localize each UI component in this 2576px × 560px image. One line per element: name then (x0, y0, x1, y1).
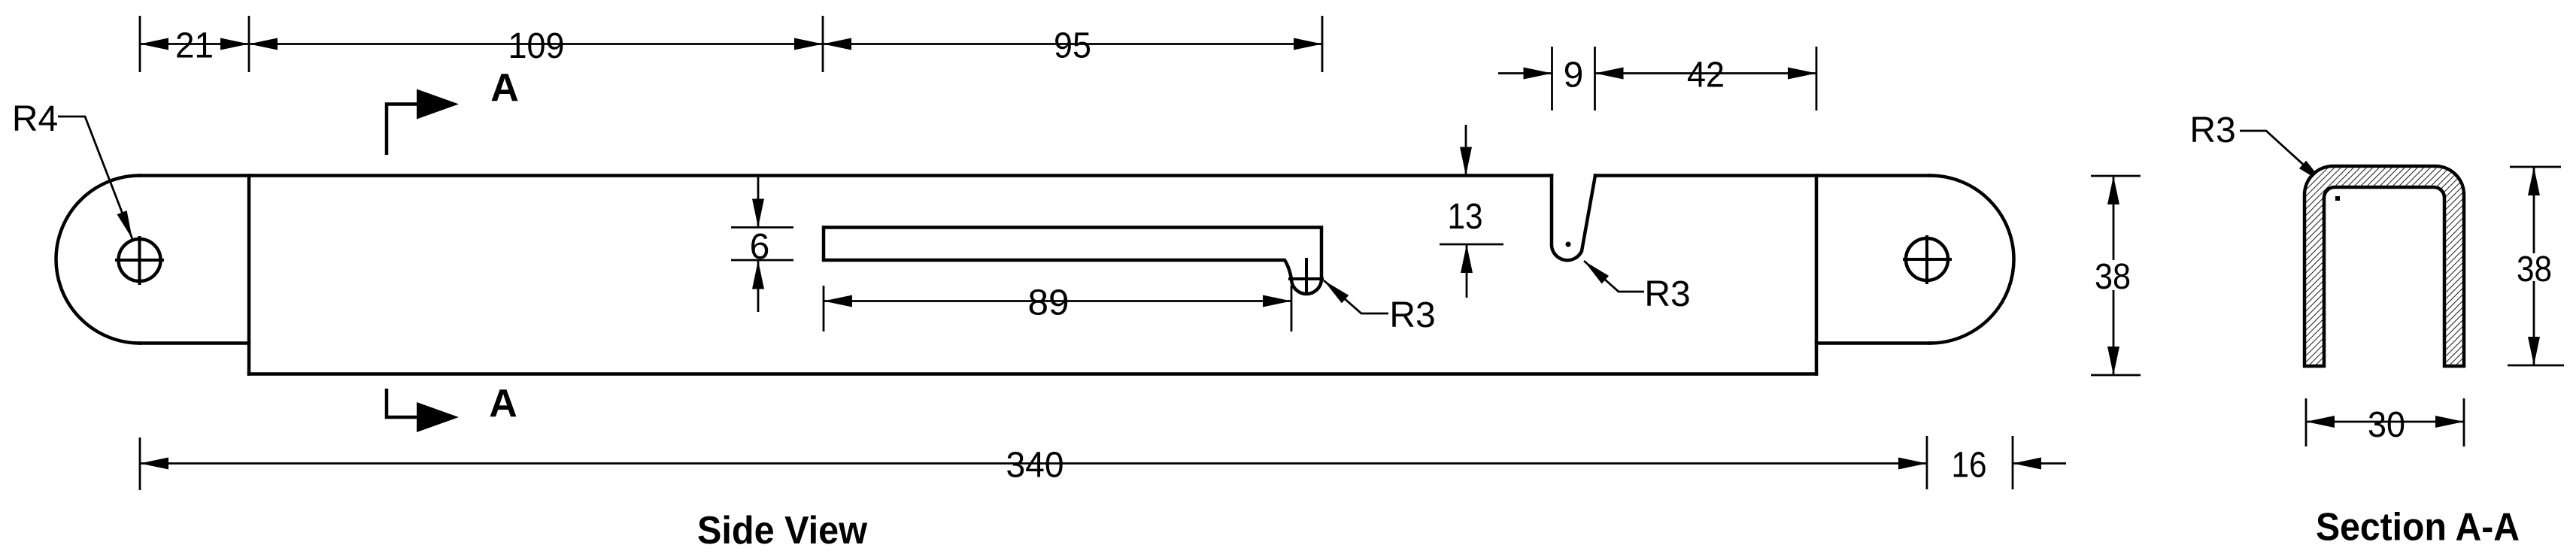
svg-text:Side View: Side View (697, 509, 868, 552)
svg-text:42: 42 (1687, 56, 1725, 95)
svg-text:R3: R3 (2189, 110, 2235, 150)
svg-text:109: 109 (508, 26, 565, 66)
svg-text:340: 340 (1006, 446, 1064, 486)
svg-text:Section A-A: Section A-A (2316, 506, 2520, 549)
svg-text:13: 13 (1448, 197, 1483, 237)
svg-text:A: A (489, 382, 517, 425)
svg-text:R4: R4 (12, 99, 58, 139)
svg-text:R3: R3 (1389, 295, 1435, 335)
svg-text:89: 89 (1028, 283, 1070, 323)
svg-text:21: 21 (175, 26, 214, 66)
svg-text:38: 38 (2095, 257, 2131, 297)
svg-text:30: 30 (2368, 405, 2405, 445)
svg-text:38: 38 (2517, 250, 2552, 289)
svg-text:16: 16 (1952, 446, 1987, 486)
svg-text:6: 6 (750, 227, 770, 267)
svg-text:9: 9 (1564, 56, 1584, 95)
svg-text:R3: R3 (1644, 274, 1690, 314)
svg-text:95: 95 (1054, 26, 1091, 66)
svg-text:A: A (490, 66, 519, 110)
